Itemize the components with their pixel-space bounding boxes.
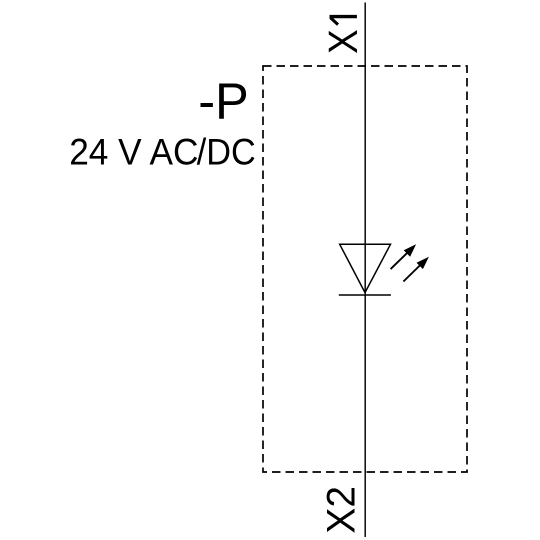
svg-text:X: X	[320, 29, 366, 54]
svg-text:24 V AC: 24 V AC	[69, 130, 198, 172]
svg-text:X2: X2	[319, 486, 363, 534]
svg-text:-P: -P	[198, 73, 249, 130]
svg-text:/DC: /DC	[197, 130, 256, 172]
